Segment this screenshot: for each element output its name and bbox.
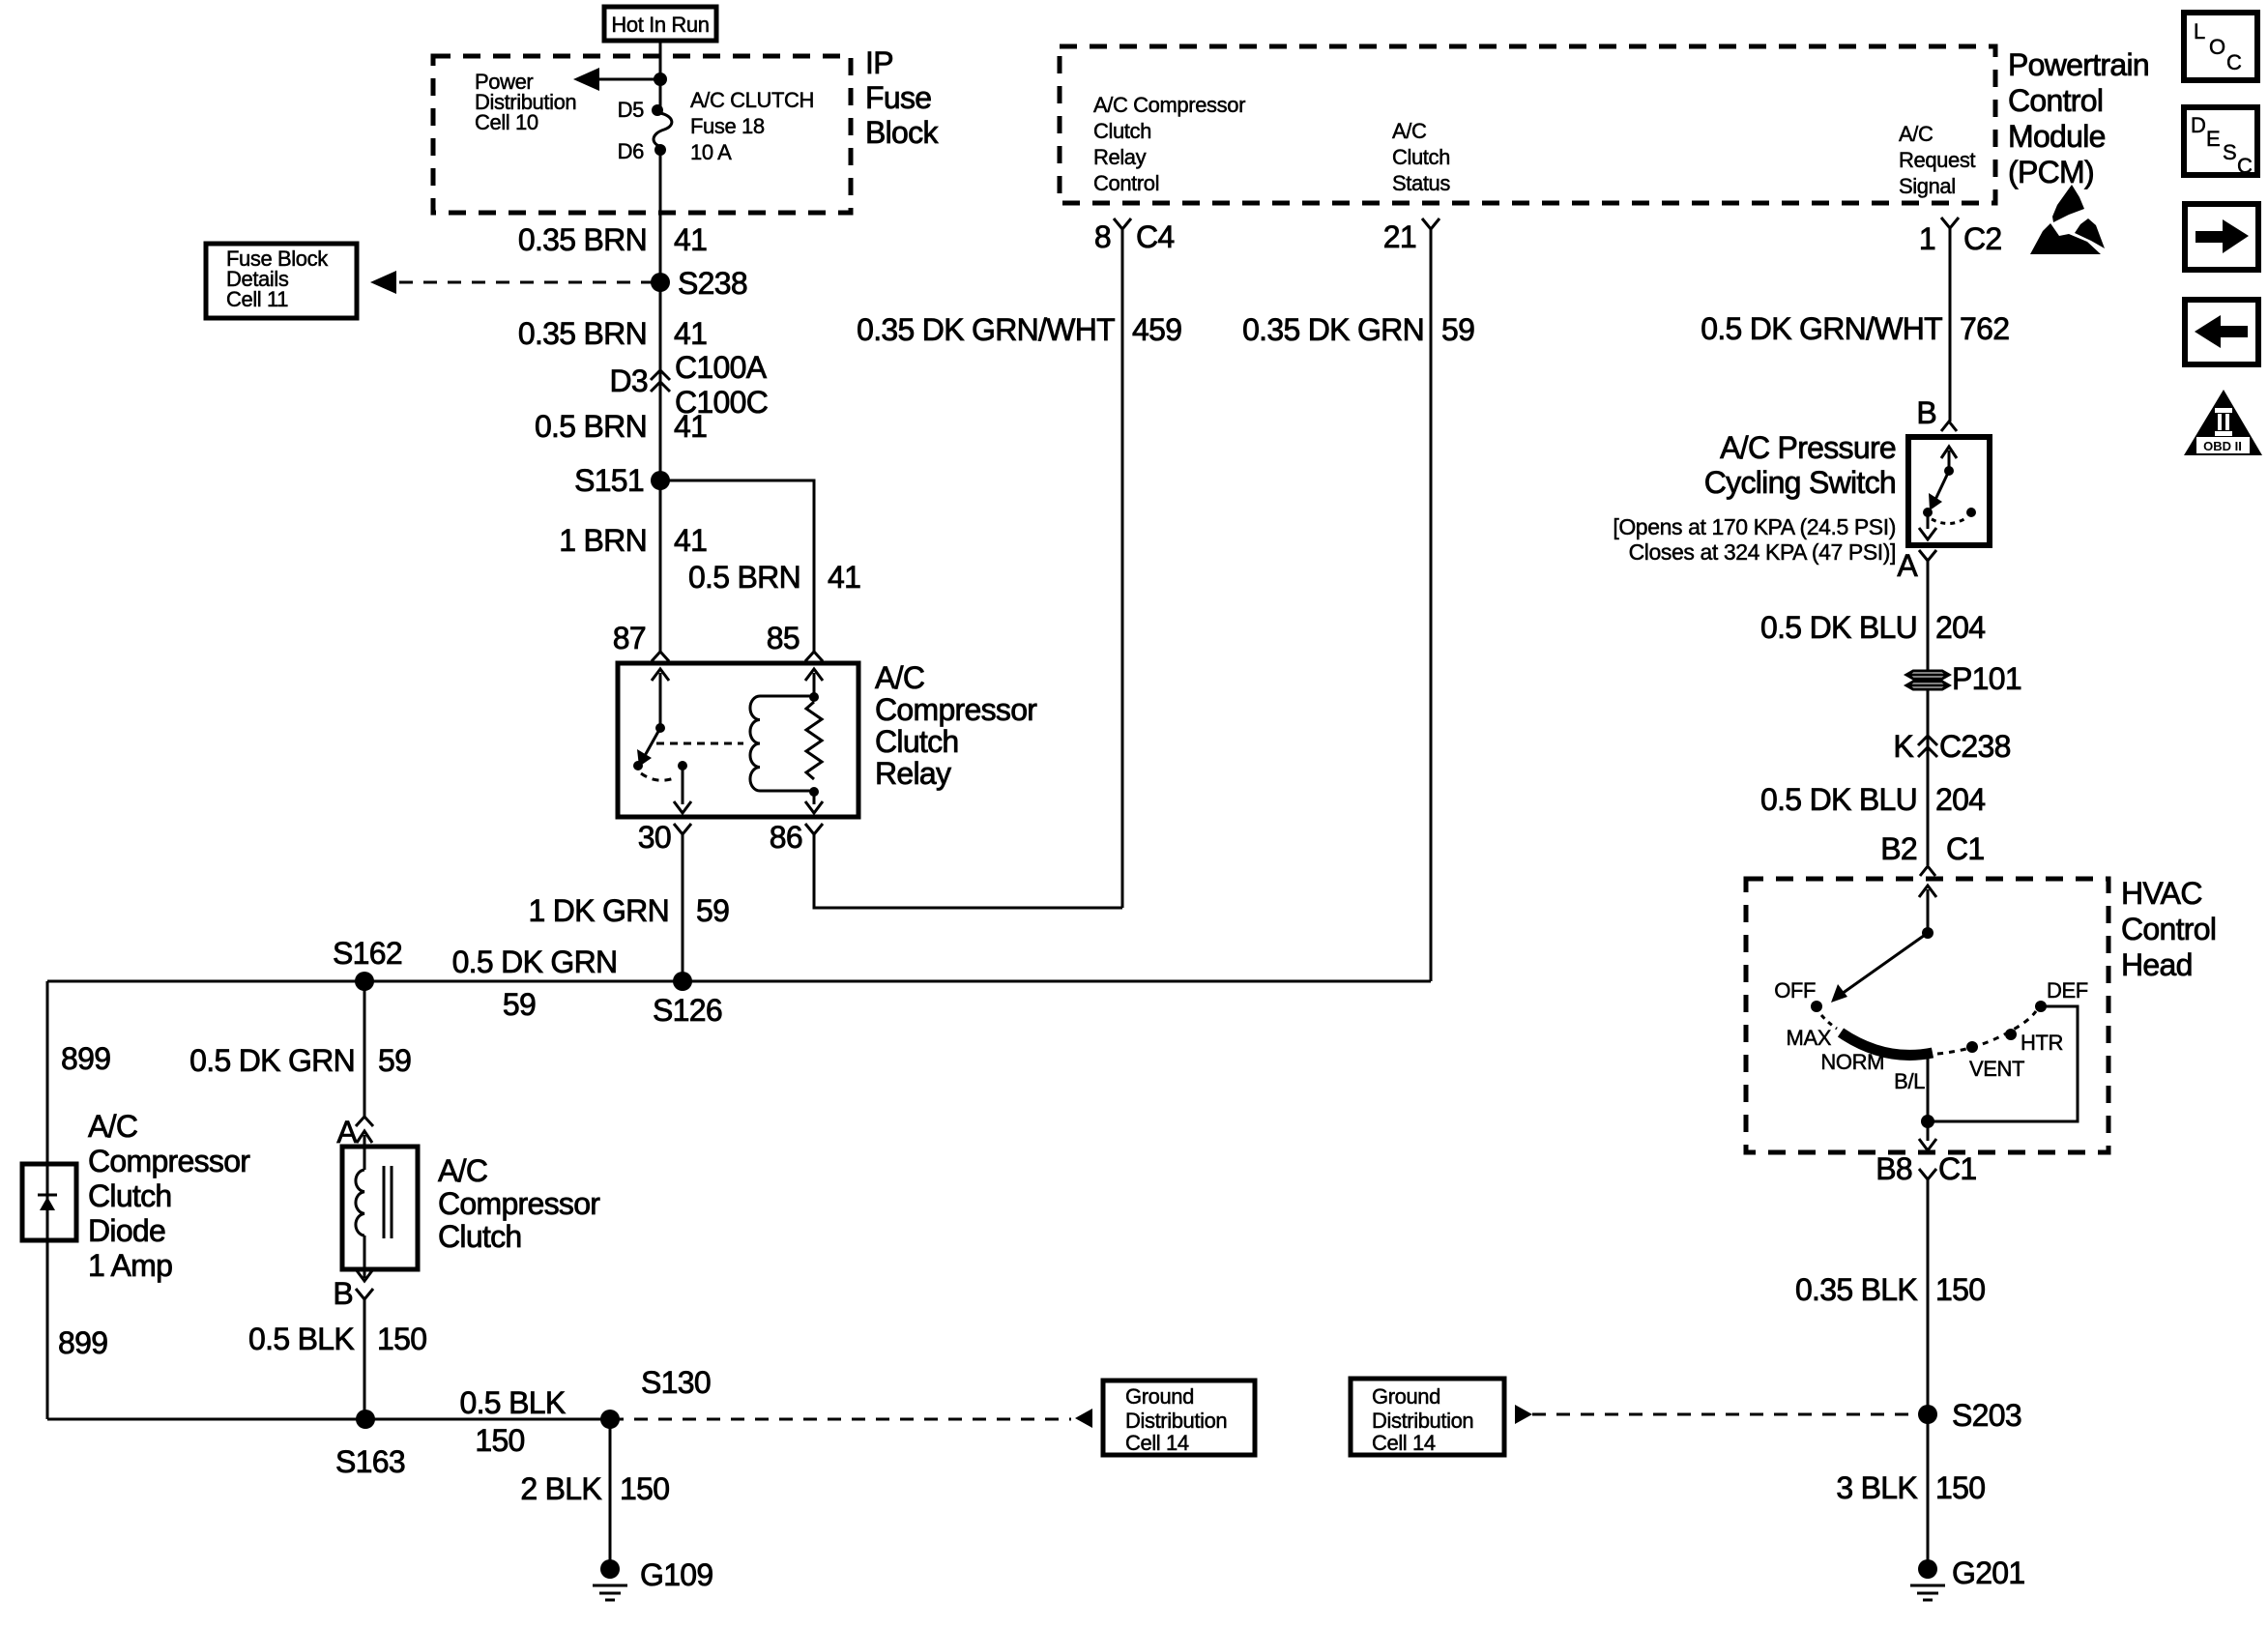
svg-text:1 BRN: 1 BRN (559, 523, 647, 558)
PCM function label: A/C Clutch Status (1392, 119, 1450, 195)
ground G109 (593, 1557, 712, 1600)
svg-text:2 BLK: 2 BLK (520, 1471, 601, 1506)
svg-text:Clutch: Clutch (1093, 119, 1151, 143)
wire label 2 BLK 150 (520, 1471, 669, 1506)
PCM pin 1 (C2) female terminal (1941, 218, 1959, 228)
svg-text:E: E (2206, 127, 2220, 151)
svg-text:C: C (2226, 50, 2242, 74)
svg-text:VENT: VENT (1969, 1057, 2024, 1081)
svg-text:0.5 DK GRN/WHT: 0.5 DK GRN/WHT (1701, 311, 1942, 346)
wire: P101 to C238 (1927, 689, 1930, 865)
Ground Distribution Cell 14 box (left) (1103, 1381, 1255, 1455)
svg-text:A/C Compressor: A/C Compressor (1093, 93, 1245, 117)
svg-text:1: 1 (1919, 221, 1935, 256)
svg-text:Request: Request (1899, 148, 1975, 172)
svg-text:59: 59 (503, 987, 536, 1022)
wire: left branch down from bus (46, 981, 49, 1419)
svg-text:A/C CLUTCH: A/C CLUTCH (690, 88, 814, 112)
svg-text:[Opens at 170 KPA (24.5 PSI): [Opens at 170 KPA (24.5 PSI) (1613, 514, 1896, 539)
ground bus wire (150 circuit) (47, 1418, 610, 1421)
relay internal switch (87-30) (633, 669, 691, 813)
wire: PCM pin 8 down (1121, 229, 1124, 908)
left-arrow legend box (2185, 300, 2258, 364)
wire label 1 DK GRN 59 (528, 893, 729, 928)
svg-text:0.5 DK GRN: 0.5 DK GRN (189, 1043, 355, 1078)
pin A female terminal (1919, 550, 1936, 561)
svg-text:Cell 14: Cell 14 (1125, 1431, 1189, 1455)
connector C100A/C100C (cavity D3) (651, 370, 670, 392)
svg-text:0.5 DK BLU: 0.5 DK BLU (1760, 610, 1917, 645)
HVAC rotary wiper arm (1831, 933, 1928, 1003)
pressure switch internals (1919, 447, 1976, 539)
ESD sensitivity symbol (2030, 185, 2105, 254)
wire label 0.35 BRN 41 (518, 222, 707, 257)
svg-text:Control: Control (1093, 171, 1159, 195)
wire: relay pin 86 to PCM pin 8 run (814, 834, 1122, 908)
pin A male terminal (356, 1117, 373, 1126)
svg-text:Relay: Relay (875, 756, 951, 791)
wire: HVAC pin B8 down to S203 (1927, 1179, 1930, 1561)
svg-text:B8: B8 (1875, 1151, 1912, 1186)
clutch name label (438, 1153, 600, 1254)
dashed travel B/L-VENT-HTR-DEF (1937, 1011, 2036, 1054)
dashed reference wire from S130 to Ground Distribution (610, 1409, 1092, 1428)
svg-text:Compressor: Compressor (875, 692, 1037, 727)
thick contact strip MAX-NORM-B/L (1841, 1032, 1933, 1055)
svg-text:A/C: A/C (88, 1109, 137, 1144)
HVAC name label (2121, 876, 2216, 982)
svg-text:1 DK GRN: 1 DK GRN (528, 893, 669, 928)
wire label 0.5 BRN 41 (branch) (688, 560, 860, 595)
svg-text:OFF: OFF (1774, 978, 1816, 1003)
svg-text:A/C: A/C (1899, 122, 1934, 146)
svg-text:A: A (1897, 548, 1918, 583)
svg-text:Module: Module (2008, 119, 2106, 154)
svg-text:0.5 BLK: 0.5 BLK (248, 1322, 354, 1356)
wire from B/L contact down (1927, 1054, 1930, 1121)
svg-text:S238: S238 (678, 266, 747, 301)
dashed reference wire from S238 to Fuse Block Details (370, 271, 654, 294)
svg-text:MAX: MAX (1787, 1026, 1832, 1050)
svg-text:Fuse: Fuse (865, 80, 931, 115)
PCM pin 8 (C4) female terminal (1114, 218, 1131, 229)
svg-text:Cycling Switch: Cycling Switch (1704, 465, 1896, 500)
svg-text:HVAC: HVAC (2121, 876, 2202, 911)
splice S162 (355, 972, 374, 991)
svg-text:A/C: A/C (875, 660, 924, 695)
svg-text:0.5 DK GRN: 0.5 DK GRN (452, 945, 618, 979)
LOC legend box (2184, 13, 2257, 80)
wire: S151 branch to relay pin 85 (660, 480, 814, 652)
fuse name label (690, 88, 814, 164)
svg-text:87: 87 (613, 621, 646, 655)
svg-text:Diode: Diode (88, 1213, 165, 1248)
svg-text:150: 150 (620, 1471, 669, 1506)
HVAC Control Head (dashed box) (1746, 879, 2108, 1152)
connector C238 (cavity K) (1918, 736, 1937, 757)
svg-text:C1: C1 (1938, 1151, 1977, 1186)
svg-text:41: 41 (674, 409, 707, 444)
svg-text:Relay: Relay (1093, 145, 1147, 169)
svg-text:41: 41 (828, 560, 860, 595)
svg-text:S151: S151 (574, 463, 644, 498)
wire label 0.5 DK GRN 59 (189, 1043, 411, 1078)
svg-text:0.35 BRN: 0.35 BRN (518, 222, 647, 257)
svg-text:Clutch: Clutch (875, 724, 959, 759)
svg-text:Ground: Ground (1125, 1384, 1194, 1409)
svg-text:B/L: B/L (1894, 1069, 1925, 1093)
svg-text:Clutch: Clutch (88, 1178, 172, 1213)
pin 85 male terminal (805, 652, 823, 661)
pin B female terminal (356, 1289, 373, 1299)
svg-text:86: 86 (770, 820, 802, 855)
contact OFF (1811, 1001, 1822, 1012)
pin 87 male terminal (652, 652, 669, 661)
svg-text:S126: S126 (653, 993, 722, 1028)
svg-text:Closes at 324 KPA (47 PSI)]: Closes at 324 KPA (47 PSI)] (1629, 539, 1896, 565)
svg-text:L: L (2194, 19, 2205, 44)
splice S163 (356, 1410, 375, 1429)
svg-text:B: B (333, 1276, 353, 1311)
svg-text:DEF: DEF (2047, 978, 2088, 1003)
svg-text:150: 150 (1935, 1272, 1985, 1307)
svg-text:D3: D3 (609, 363, 648, 398)
svg-text:899: 899 (61, 1041, 110, 1076)
relay name label (875, 660, 1037, 791)
svg-text:10 A: 10 A (690, 140, 732, 164)
switch spec label (1613, 514, 1896, 565)
svg-text:Compressor: Compressor (438, 1186, 600, 1221)
svg-text:Signal: Signal (1899, 174, 1956, 198)
svg-text:150: 150 (377, 1322, 426, 1356)
svg-text:G109: G109 (640, 1557, 712, 1592)
svg-text:Distribution: Distribution (1372, 1409, 1473, 1433)
svg-text:459: 459 (1132, 312, 1181, 347)
relay internal mechanical link (dashed) (656, 742, 743, 745)
wire label 0.5 BRN 41 (535, 409, 707, 444)
svg-text:Control: Control (2008, 83, 2103, 118)
svg-text:HTR: HTR (2021, 1031, 2063, 1055)
wire: clutch pin B down to S163 (363, 1299, 366, 1419)
dashed reference wire from Ground Distribution to S203 (1515, 1405, 1922, 1424)
svg-text:0.5 BLK: 0.5 BLK (460, 1385, 566, 1420)
wire: relay pin 30 down to S126 (682, 834, 684, 981)
svg-text:204: 204 (1935, 782, 1985, 817)
svg-text:Cell 10: Cell 10 (475, 110, 538, 134)
svg-text:Clutch: Clutch (438, 1219, 522, 1254)
svg-text:Powertrain: Powertrain (2008, 47, 2149, 82)
wire label 1 BRN 41 (559, 523, 707, 558)
diode symbol (38, 1195, 57, 1210)
wire label 0.35 BRN 41 (518, 316, 707, 351)
wire: S130 down to G109 (609, 1419, 612, 1561)
PCM pin 21 (C1) female terminal (1422, 218, 1439, 229)
svg-text:Hot In Run: Hot In Run (611, 13, 709, 37)
svg-text:59: 59 (378, 1043, 411, 1078)
grommet P101 (1906, 661, 2021, 696)
svg-text:762: 762 (1960, 311, 2009, 346)
splice S151 (651, 471, 670, 490)
svg-text:D5: D5 (618, 98, 644, 122)
svg-text:30: 30 (638, 820, 671, 855)
svg-text:S203: S203 (1952, 1398, 2021, 1433)
wire: S151 down to relay pin 87 (659, 480, 662, 652)
svg-text:G201: G201 (1952, 1555, 2024, 1590)
svg-text:Distribution: Distribution (1125, 1409, 1227, 1433)
svg-text:Status: Status (1392, 171, 1450, 195)
svg-text:21: 21 (1383, 219, 1416, 254)
wire label 0.35 DK GRN 59 (1242, 312, 1474, 347)
contact HTR (2005, 1029, 2017, 1040)
PCM function label: A/C Compressor Clutch Relay Control (1093, 93, 1245, 195)
wire: S162 down to clutch pin A (363, 981, 366, 1117)
wire label 0.5 BLK / 150 on bus (460, 1385, 566, 1458)
pin 30 female terminal (674, 824, 691, 834)
contact VENT (1966, 1041, 1978, 1053)
A/C Compressor Clutch Diode box (22, 1164, 76, 1240)
svg-text:A/C: A/C (438, 1153, 487, 1188)
A/C Pressure Cycling Switch box (1908, 437, 1990, 545)
svg-text:C2: C2 (1963, 221, 2002, 256)
svg-text:0.35 DK GRN: 0.35 DK GRN (1242, 312, 1424, 347)
ground G201 (1910, 1555, 2024, 1600)
svg-text:IP: IP (865, 45, 893, 80)
output node dot (1921, 1115, 1934, 1128)
svg-text:Cell 14: Cell 14 (1372, 1431, 1436, 1455)
svg-text:59: 59 (696, 893, 729, 928)
relay internal resistor (806, 702, 822, 779)
svg-text:1 Amp: 1 Amp (88, 1248, 172, 1283)
svg-text:P101: P101 (1952, 661, 2021, 696)
dashed travel OFF-MAX (1821, 1015, 1837, 1029)
svg-text:8: 8 (1094, 219, 1111, 254)
pin B8 female terminal (1919, 1169, 1936, 1179)
svg-text:C238: C238 (1939, 729, 2011, 764)
svg-text:C1: C1 (1946, 831, 1985, 866)
wire label 0.35 DK GRN/WHT 459 (857, 312, 1181, 347)
wire label 0.5 DK BLU 204 (1760, 610, 1985, 645)
Powertrain Control Module (dashed box) (1060, 46, 1995, 203)
svg-text:150: 150 (1935, 1470, 1985, 1505)
svg-text:K: K (1893, 729, 1913, 764)
svg-text:0.5 BRN: 0.5 BRN (535, 409, 647, 444)
svg-text:899: 899 (58, 1325, 107, 1360)
OBD II symbol (2184, 390, 2262, 455)
svg-text:O: O (2209, 35, 2225, 59)
svg-text:(PCM): (PCM) (2008, 155, 2094, 189)
svg-text:0.5 BRN: 0.5 BRN (688, 560, 800, 595)
wire: PCM pin 1 down to pressure switch pin B (1949, 228, 1952, 422)
wire label 0.5 DK GRN/WHT 762 (1701, 311, 2009, 346)
svg-text:150: 150 (475, 1423, 524, 1458)
HVAC output arrow down (1919, 1121, 1936, 1150)
A/C Compressor Clutch box (342, 1147, 418, 1269)
wire: fuse output down to S238 (659, 150, 662, 282)
wire label 3 BLK 150 (1836, 1470, 1985, 1505)
svg-text:Ground: Ground (1372, 1384, 1440, 1409)
wire: PCM pin 21 down to splice bus (1430, 229, 1433, 981)
svg-text:Compressor: Compressor (88, 1144, 250, 1178)
splice S130 (600, 1410, 620, 1429)
wire from Hot In Run into IP fuse block (659, 41, 662, 108)
wire label 0.5 DK BLU 204 (lower) (1760, 782, 1985, 817)
relay coil (85-86) (750, 669, 823, 797)
wire: arrow to Power Distribution (573, 68, 660, 91)
diode name label (88, 1109, 250, 1283)
splice S203 (1918, 1405, 1937, 1424)
svg-text:Head: Head (2121, 947, 2193, 982)
svg-text:S: S (2223, 140, 2236, 164)
svg-text:C4: C4 (1136, 219, 1175, 254)
contact DEF (2035, 1001, 2047, 1012)
wire: switch pin A down to P101 (1927, 561, 1930, 671)
wire label 0.5 DK GRN / 59 on bus (452, 945, 618, 1022)
svg-text:A/C Pressure: A/C Pressure (1720, 430, 1896, 465)
svg-text:Control: Control (2121, 912, 2216, 946)
svg-text:204: 204 (1935, 610, 1985, 645)
clutch coil entry arrow (357, 1131, 372, 1170)
svg-text:B: B (1916, 395, 1936, 430)
svg-text:Fuse 18: Fuse 18 (690, 114, 765, 138)
svg-text:0.35 DK GRN/WHT: 0.35 DK GRN/WHT (857, 312, 1115, 347)
DESC legend box (2184, 107, 2257, 178)
svg-text:NORM: NORM (1820, 1050, 1884, 1074)
main ground bus wire (59 circuit) (47, 980, 1431, 983)
svg-text:3 BLK: 3 BLK (1836, 1470, 1917, 1505)
IP Fuse Block label (865, 45, 939, 150)
svg-text:0.35 BRN: 0.35 BRN (518, 316, 647, 351)
Ground Distribution Cell 14 box (right) (1351, 1379, 1504, 1455)
svg-text:S163: S163 (335, 1444, 405, 1479)
splice S238 (651, 273, 670, 292)
wire label 0.35 BLK 150 (1795, 1272, 1985, 1307)
Hot In Run power source box (604, 7, 716, 41)
svg-text:Block: Block (865, 115, 939, 150)
svg-text:Clutch: Clutch (1392, 145, 1450, 169)
clutch coil exit arrow (356, 1236, 373, 1281)
A/C Compressor Clutch Relay box (618, 663, 858, 817)
IP Fuse Block (dashed box) (433, 56, 851, 213)
fuse F18 A/C CLUTCH (element between D5 and D6) (652, 104, 672, 156)
svg-text:C100A: C100A (675, 350, 768, 385)
svg-text:41: 41 (674, 222, 707, 257)
wire label 0.5 BLK 150 (248, 1322, 426, 1356)
svg-text:A/C: A/C (1392, 119, 1427, 143)
pin 86 female terminal (805, 824, 823, 834)
pin B2 male terminal (1920, 866, 1935, 876)
wire from DEF contact to output node (1928, 1006, 2078, 1121)
PCM function label: A/C Request Signal (1899, 122, 1975, 198)
svg-text:59: 59 (1441, 312, 1474, 347)
svg-text:0.5 DK BLU: 0.5 DK BLU (1760, 782, 1917, 817)
Fuse Block Details Cell 11 box (206, 244, 357, 318)
svg-text:C: C (2237, 154, 2253, 178)
svg-text:Cell 11: Cell 11 (226, 287, 288, 311)
HVAC rotary switch input arrow (1919, 886, 1936, 939)
switch name label (1704, 430, 1896, 500)
PCM name label (2008, 47, 2149, 189)
svg-text:85: 85 (767, 621, 800, 655)
splice S126 (673, 972, 692, 991)
node: feed junction in fuse block (654, 73, 667, 86)
svg-text:B2: B2 (1880, 831, 1917, 866)
svg-text:41: 41 (674, 523, 707, 558)
Power Distribution Cell 10 label (475, 70, 576, 134)
svg-text:D6: D6 (618, 139, 644, 163)
svg-text:0.35 BLK: 0.35 BLK (1795, 1272, 1917, 1307)
svg-text:OBD II: OBD II (2203, 439, 2242, 453)
svg-text:41: 41 (674, 316, 707, 351)
svg-text:D: D (2191, 113, 2206, 137)
clutch coil (356, 1166, 392, 1238)
svg-text:S130: S130 (641, 1365, 711, 1400)
pressure switch pin B male terminal (1941, 422, 1957, 431)
wire: S238 down to C100 connector (659, 282, 662, 480)
svg-text:S162: S162 (333, 936, 402, 971)
right-arrow legend box (2185, 204, 2258, 270)
relay coil out arrow to 86 (805, 792, 823, 813)
